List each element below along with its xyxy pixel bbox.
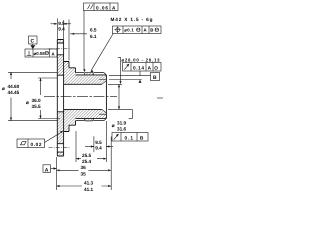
svg-text:C: C <box>31 38 35 44</box>
ext line face <box>105 121 107 162</box>
svg-text:B: B <box>153 75 157 81</box>
arrow dia31.9 top <box>118 84 120 87</box>
svg-text:⌀0.1: ⌀0.1 <box>124 28 134 33</box>
hatch flange bottom cap <box>57 152 63 156</box>
svg-text:41.1: 41.1 <box>84 187 94 192</box>
svg-text:36: 36 <box>81 165 87 170</box>
25.5 dim <box>76 158 106 160</box>
stray centerline dash right <box>157 97 163 99</box>
svg-text:35: 35 <box>81 172 87 177</box>
bolt hole centerline top <box>49 48 71 50</box>
dia 44.6 dim <box>8 71 57 73</box>
hatch flange top cap <box>57 40 63 44</box>
ext line step <box>75 131 77 162</box>
arrow M42 leader tip <box>90 70 93 72</box>
svg-text:⌀: ⌀ <box>2 86 5 91</box>
FCF runout 0.14 <box>123 63 162 72</box>
hatch flange upper <box>57 55 63 76</box>
9.5 flange dim extensions <box>57 19 63 40</box>
hatch body bottom wall <box>64 109 107 131</box>
dia 36 dim <box>38 77 57 79</box>
svg-text:9.4: 9.4 <box>58 27 65 32</box>
svg-text:B: B <box>150 28 153 33</box>
svg-text:25.4: 25.4 <box>82 159 92 164</box>
svg-text:A: A <box>45 167 49 173</box>
svg-text:⌀: ⌀ <box>26 100 29 105</box>
arrow dia28 leader tip <box>119 81 121 84</box>
hatch undercut bottom notch <box>85 118 94 120</box>
svg-text:⌀: ⌀ <box>112 123 115 128</box>
dia 31.9 dimension line <box>118 84 120 109</box>
dia 31.9 extension bottom <box>108 108 132 110</box>
svg-text:44.60: 44.60 <box>8 84 20 89</box>
dia 28 leader <box>118 57 121 81</box>
svg-text:M42 X 1.5 - 6g: M42 X 1.5 - 6g <box>111 17 153 22</box>
svg-text:31.6: 31.6 <box>117 127 127 132</box>
arrow parallelism leader tip <box>83 69 85 72</box>
boss / thread outline <box>76 73 107 121</box>
datum B attach line <box>109 71 151 76</box>
svg-text:35.5: 35.5 <box>32 104 42 109</box>
FCF runout 0.1 B <box>112 133 148 142</box>
svg-text:36.0: 36.0 <box>32 98 42 103</box>
datum C connector <box>32 44 34 46</box>
6.5 undercut dim <box>70 33 87 35</box>
datum C box <box>29 36 38 44</box>
FCF position M42 <box>113 26 162 34</box>
flatness leader <box>45 132 63 143</box>
M42 leader <box>91 34 113 71</box>
FCF flatness 0.02 <box>17 139 45 148</box>
ext line right-most <box>110 137 112 191</box>
hatch body top wall <box>64 62 107 85</box>
FCF parallelism leader <box>83 11 85 71</box>
bolt hole centerline bottom <box>49 147 71 149</box>
svg-text:6.5: 6.5 <box>90 28 97 33</box>
36-35 dim <box>57 169 112 171</box>
flange bolt hole bottom edges <box>57 144 63 152</box>
svg-text:0.06: 0.06 <box>96 5 108 10</box>
body outline <box>64 62 76 132</box>
svg-text:31.9: 31.9 <box>117 121 127 126</box>
41.3 dim <box>57 185 112 187</box>
svg-text:6.1: 6.1 <box>90 34 97 39</box>
bottom 9.5 dim <box>93 136 95 152</box>
svg-text:0.1: 0.1 <box>125 135 134 140</box>
svg-text:25.5: 25.5 <box>82 153 92 158</box>
svg-text:A: A <box>52 51 55 56</box>
svg-text:0.14: 0.14 <box>133 65 144 70</box>
svg-text:9.5: 9.5 <box>58 21 65 26</box>
hatch undercut top notch <box>85 73 94 75</box>
datum B box <box>151 73 160 81</box>
svg-text:9.5: 9.5 <box>95 140 102 145</box>
datum A arrow <box>51 168 57 170</box>
right end face <box>105 75 107 118</box>
svg-text:9.4: 9.4 <box>95 145 102 150</box>
FCF parallelism 0.06 A <box>84 3 119 11</box>
centerline <box>44 96 117 98</box>
dia 31.9 extension top <box>108 83 122 85</box>
svg-text:⌀28.00 - 28.13: ⌀28.00 - 28.13 <box>122 58 161 63</box>
arrow dia31.9 bottom <box>118 106 120 109</box>
thread root lines <box>76 75 107 119</box>
thread undercut bottom <box>84 118 93 121</box>
svg-text:0.02: 0.02 <box>31 142 42 147</box>
9.5 flange dim arrows <box>51 23 58 25</box>
datum A box <box>43 165 51 173</box>
flange outline <box>57 40 63 157</box>
svg-text:⌀0.08: ⌀0.08 <box>34 51 46 56</box>
svg-text:A: A <box>144 28 147 33</box>
thread undercut top <box>84 72 93 75</box>
hatch flange lower <box>57 112 63 144</box>
datum B triangle <box>139 80 142 83</box>
svg-text:41.3: 41.3 <box>84 181 94 186</box>
elbow to label <box>129 109 133 118</box>
flange center hole edges <box>57 75 63 112</box>
svg-text:O: O <box>154 65 158 70</box>
bore lines <box>64 84 102 109</box>
svg-text:44.45: 44.45 <box>8 90 20 95</box>
ext line datum A / flange <box>56 157 58 190</box>
FCF perpendicularity 0.08 <box>25 49 57 57</box>
bore thread end lines and chamfers <box>99 79 106 114</box>
flange bolt hole top edges <box>57 43 63 55</box>
